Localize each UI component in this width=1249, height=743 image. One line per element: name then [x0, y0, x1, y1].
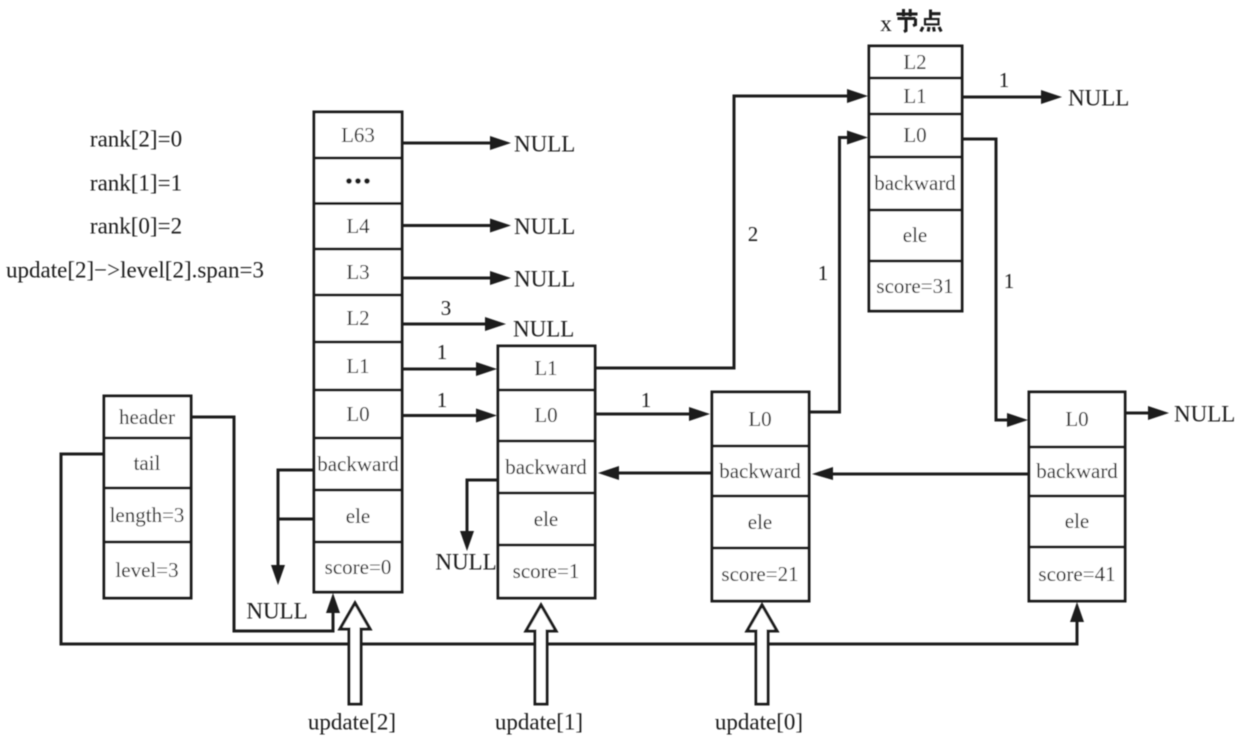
- svg-text:update[2]−>level[2].span=3: update[2]−>level[2].span=3: [6, 258, 264, 283]
- svg-text:L2: L2: [346, 306, 369, 330]
- svg-text:update[2]: update[2]: [308, 710, 396, 735]
- header node column: [314, 112, 402, 592]
- svg-text:update[1]: update[1]: [495, 710, 583, 735]
- svg-text:L0: L0: [534, 403, 557, 427]
- svg-text:length=3: length=3: [110, 503, 185, 527]
- svg-text:L1: L1: [903, 84, 926, 108]
- svg-text:NULL: NULL: [435, 550, 496, 575]
- svg-text:2: 2: [748, 222, 759, 246]
- wire node1 backward to NULL: [435, 480, 498, 575]
- wire header node backward and ele to NULL: [246, 469, 314, 624]
- svg-text:level=3: level=3: [115, 558, 178, 582]
- svg-text:L0: L0: [748, 407, 771, 431]
- svg-text:NULL: NULL: [246, 599, 307, 624]
- svg-text:backward: backward: [505, 455, 587, 479]
- svg-text:x: x: [880, 11, 892, 36]
- wire node1 L1 to x node L1, span 2: [595, 89, 868, 368]
- svg-text:score=0: score=0: [325, 555, 392, 579]
- wire L2 to NULL, span 3: [402, 296, 574, 342]
- svg-text:L3: L3: [346, 260, 369, 284]
- wire header pointer to header node: [191, 417, 340, 631]
- svg-text:L1: L1: [534, 356, 557, 380]
- svg-text:ele: ele: [903, 223, 927, 247]
- svg-text:header: header: [119, 405, 175, 429]
- wire L63 to NULL: [402, 132, 575, 157]
- svg-text:1: 1: [641, 388, 652, 412]
- svg-text:NULL: NULL: [1068, 86, 1129, 111]
- hollow arrow update[2]: [308, 603, 396, 735]
- wire L3 to NULL: [402, 267, 575, 292]
- svg-text:update[0]: update[0]: [715, 710, 803, 735]
- wire header L0 to node1 L0, span 1: [402, 388, 497, 423]
- wire node1 L0 to node21 L0, span 1: [595, 388, 710, 421]
- svg-text:L63: L63: [341, 123, 375, 147]
- svg-text:ele: ele: [534, 507, 558, 531]
- svg-text:1: 1: [818, 261, 829, 285]
- node score=41 column: [1029, 392, 1125, 601]
- svg-text:score=31: score=31: [876, 274, 953, 298]
- x node column: [869, 46, 962, 311]
- svg-text:3: 3: [441, 296, 452, 320]
- svg-text:backward: backward: [1036, 459, 1118, 483]
- svg-text:1: 1: [999, 68, 1010, 92]
- svg-text:NULL: NULL: [514, 132, 575, 157]
- hollow arrow update[0]: [715, 605, 803, 735]
- svg-text:L0: L0: [1065, 407, 1088, 431]
- node score=21 column: [712, 392, 809, 601]
- wire x node L1 to NULL, span 1: [962, 68, 1129, 111]
- wire node41 L0 to NULL: [1125, 402, 1235, 427]
- zskiplist struct box: [104, 396, 191, 598]
- node score=1 column: [498, 346, 595, 598]
- svg-text:ele: ele: [1065, 509, 1089, 533]
- wire L4 to NULL: [402, 214, 575, 239]
- svg-text:ele: ele: [346, 504, 370, 528]
- wire tail pointer to node41: [61, 454, 1084, 644]
- wire header L1 to node1 L1, span 1: [402, 340, 497, 376]
- svg-text:backward: backward: [874, 171, 956, 195]
- svg-text:NULL: NULL: [514, 267, 575, 292]
- svg-text:backward: backward: [719, 459, 801, 483]
- svg-text:NULL: NULL: [1174, 402, 1235, 427]
- wire x node L0 to node41 L0, span 1: [962, 139, 1028, 427]
- svg-text:score=41: score=41: [1038, 562, 1115, 586]
- svg-text:score=21: score=21: [721, 562, 798, 586]
- svg-text:tail: tail: [134, 451, 161, 475]
- wire node21 L0 to x node L0, span 1: [809, 131, 868, 413]
- svg-text:rank[0]=2: rank[0]=2: [90, 214, 182, 239]
- svg-text:1: 1: [1004, 269, 1015, 293]
- svg-text:rank[2]=0: rank[2]=0: [90, 127, 182, 152]
- svg-text:L2: L2: [903, 50, 926, 74]
- glyph dian: [921, 10, 941, 32]
- svg-text:NULL: NULL: [513, 317, 574, 342]
- svg-text:1: 1: [437, 388, 448, 412]
- svg-text:L0: L0: [346, 402, 369, 426]
- svg-text:score=1: score=1: [513, 559, 580, 583]
- svg-text:ele: ele: [748, 510, 772, 534]
- wire node21 backward to node1: [598, 466, 712, 480]
- svg-text:L1: L1: [346, 354, 369, 378]
- x node title: x: [880, 9, 941, 36]
- glyph jie: [897, 9, 918, 32]
- svg-text:backward: backward: [317, 452, 399, 476]
- svg-text:rank[1]=1: rank[1]=1: [90, 171, 182, 196]
- svg-text:L4: L4: [346, 214, 370, 238]
- svg-text:NULL: NULL: [514, 214, 575, 239]
- svg-text:1: 1: [437, 340, 448, 364]
- hollow arrow update[1]: [495, 605, 583, 735]
- wire node41 backward to node21: [812, 467, 1029, 480]
- svg-text:L0: L0: [903, 123, 926, 147]
